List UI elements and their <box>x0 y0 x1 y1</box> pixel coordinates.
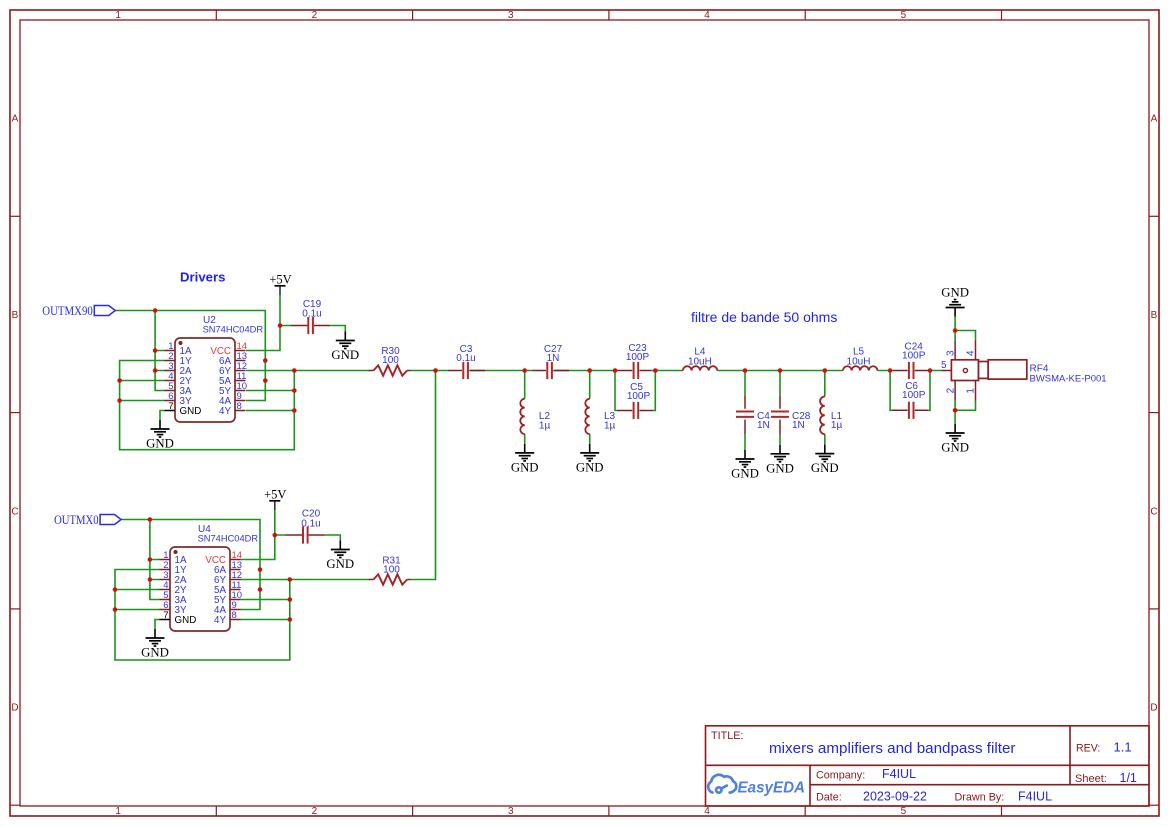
svg-text:100: 100 <box>382 355 399 366</box>
svg-text:100P: 100P <box>902 351 926 362</box>
svg-text:GND: GND <box>326 557 354 571</box>
svg-text:2: 2 <box>312 806 318 817</box>
svg-text:C: C <box>11 506 18 517</box>
svg-text:1µ: 1µ <box>539 420 551 431</box>
svg-text:0.1u: 0.1u <box>456 353 475 364</box>
svg-text:Company:: Company: <box>816 769 865 781</box>
svg-text:Date:: Date: <box>816 792 842 804</box>
svg-text:Drawn By:: Drawn By: <box>955 792 1005 804</box>
svg-text:GND: GND <box>811 461 839 475</box>
svg-text:GND: GND <box>941 441 969 455</box>
svg-text:GND: GND <box>146 437 174 451</box>
svg-text:4Y: 4Y <box>219 406 231 417</box>
svg-text:0.1u: 0.1u <box>301 519 320 530</box>
svg-text:GND: GND <box>141 646 169 660</box>
svg-text:GND: GND <box>511 460 539 474</box>
svg-text:TITLE:: TITLE: <box>711 730 743 742</box>
svg-text:+5V: +5V <box>264 488 286 502</box>
svg-text:7: 7 <box>168 401 173 412</box>
svg-text:+5V: +5V <box>269 273 291 287</box>
svg-text:1: 1 <box>966 388 977 394</box>
svg-text:10uH: 10uH <box>688 356 712 367</box>
svg-text:SN74HC04DR: SN74HC04DR <box>198 534 259 544</box>
svg-text:GND: GND <box>180 406 202 417</box>
svg-text:B: B <box>12 310 19 321</box>
svg-text:100P: 100P <box>626 352 650 363</box>
svg-text:4: 4 <box>704 806 710 817</box>
svg-text:REV:: REV: <box>1076 743 1100 755</box>
svg-text:100: 100 <box>383 565 400 576</box>
svg-text:8: 8 <box>237 401 242 412</box>
svg-text:A: A <box>12 114 19 125</box>
svg-text:EasyEDA: EasyEDA <box>738 779 806 796</box>
svg-text:7: 7 <box>163 610 168 621</box>
svg-text:4Y: 4Y <box>214 615 226 626</box>
svg-text:F4IUL: F4IUL <box>882 767 916 781</box>
svg-text:filtre de bande 50 ohms: filtre de bande 50 ohms <box>691 309 837 325</box>
svg-text:GND: GND <box>731 467 759 481</box>
svg-text:OUTMX90: OUTMX90 <box>42 304 93 318</box>
svg-text:3: 3 <box>508 10 514 21</box>
svg-text:1: 1 <box>115 806 121 817</box>
svg-text:2: 2 <box>945 387 956 393</box>
svg-text:5: 5 <box>901 10 907 21</box>
svg-text:1µ: 1µ <box>604 420 616 431</box>
svg-text:0.1u: 0.1u <box>302 309 321 320</box>
svg-text:GND: GND <box>766 461 794 475</box>
svg-text:8: 8 <box>232 610 237 621</box>
svg-text:2023-09-22: 2023-09-22 <box>863 789 927 803</box>
svg-text:3: 3 <box>945 350 956 356</box>
svg-text:5: 5 <box>901 806 907 817</box>
svg-text:2: 2 <box>312 10 318 21</box>
svg-text:1: 1 <box>115 10 121 21</box>
svg-text:10uH: 10uH <box>847 356 871 367</box>
svg-text:D: D <box>11 703 18 714</box>
svg-text:1.1: 1.1 <box>1114 740 1132 755</box>
svg-text:4: 4 <box>704 10 710 21</box>
svg-text:1N: 1N <box>547 353 560 364</box>
svg-text:C: C <box>1150 506 1157 517</box>
svg-text:100P: 100P <box>627 391 651 402</box>
svg-text:GND: GND <box>331 348 359 362</box>
svg-text:F4IUL: F4IUL <box>1018 789 1052 803</box>
svg-text:A: A <box>1151 114 1158 125</box>
svg-text:mixers amplifiers and bandpass: mixers amplifiers and bandpass filter <box>769 740 1015 757</box>
svg-text:BWSMA-KE-P001: BWSMA-KE-P001 <box>1030 374 1107 385</box>
svg-text:4: 4 <box>966 350 977 356</box>
svg-text:1µ: 1µ <box>831 420 843 431</box>
svg-text:Sheet:: Sheet: <box>1075 773 1107 785</box>
svg-text:5: 5 <box>941 360 947 371</box>
svg-text:1N: 1N <box>792 420 805 431</box>
svg-text:1N: 1N <box>757 420 770 431</box>
svg-text:3: 3 <box>508 806 514 817</box>
svg-text:100P: 100P <box>902 390 926 401</box>
svg-text:GND: GND <box>941 286 969 300</box>
svg-text:Drivers: Drivers <box>180 269 225 284</box>
svg-text:1/1: 1/1 <box>1120 771 1137 785</box>
svg-text:GND: GND <box>175 615 197 626</box>
svg-text:B: B <box>1151 310 1158 321</box>
svg-text:OUTMX0: OUTMX0 <box>54 513 99 527</box>
svg-text:D: D <box>1150 703 1157 714</box>
svg-text:GND: GND <box>576 460 604 474</box>
svg-text:SN74HC04DR: SN74HC04DR <box>203 325 264 335</box>
